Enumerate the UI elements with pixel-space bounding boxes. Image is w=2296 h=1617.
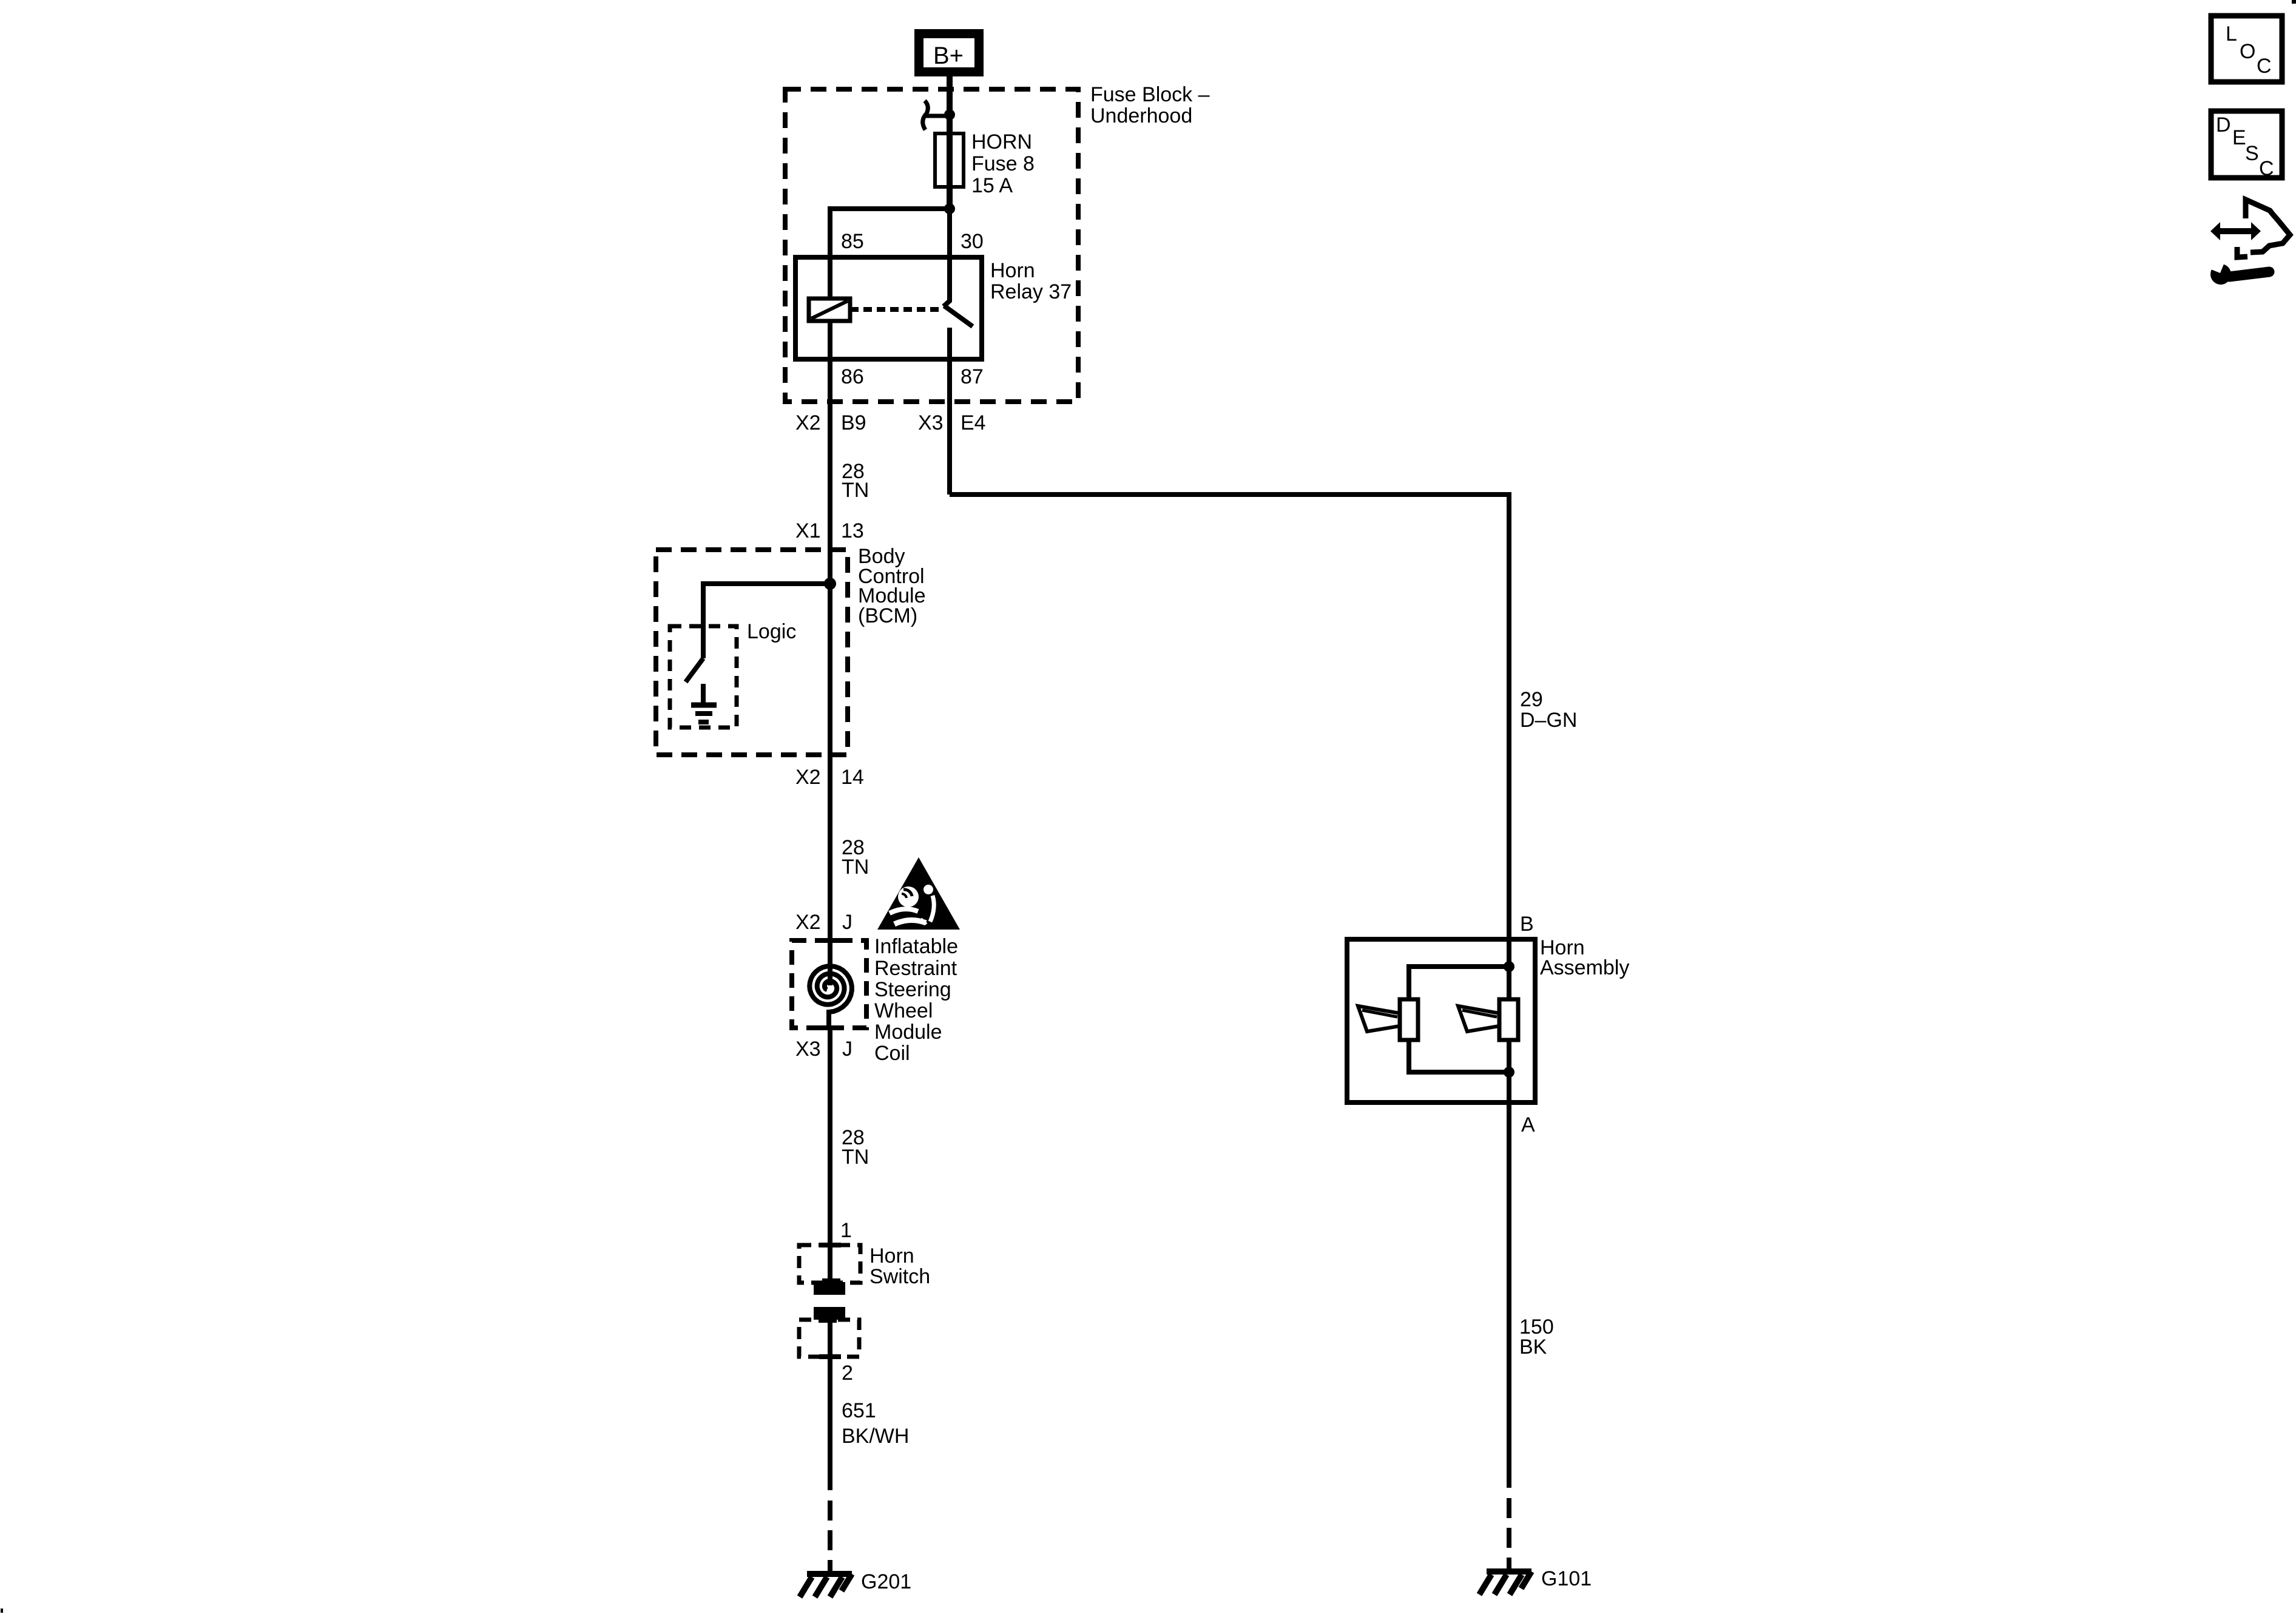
fuse puller symbol: [923, 101, 947, 130]
horn assembly box: [1347, 939, 1535, 1102]
svg-text:TN: TN: [842, 1146, 869, 1169]
relay actuation dashed link: [850, 307, 942, 312]
logic dashed box: [670, 626, 737, 727]
svg-text:15 A: 15 A: [971, 174, 1013, 197]
svg-text:C: C: [2257, 55, 2272, 78]
DESC icon box: [2211, 111, 2282, 180]
svg-text:B+: B+: [933, 42, 964, 69]
svg-text:Assembly: Assembly: [1540, 956, 1629, 979]
remove install icon: [2210, 200, 2290, 285]
svg-text:E: E: [2232, 126, 2246, 149]
svg-text:D–GN: D–GN: [1520, 709, 1577, 732]
svg-text:E4: E4: [961, 411, 986, 434]
coil spiral: [809, 940, 852, 1028]
page corner speck top right: [2292, 0, 2296, 4]
svg-text:86: 86: [841, 365, 864, 388]
wire BCM to coil: [828, 755, 832, 940]
svg-text:C: C: [2259, 157, 2274, 180]
svg-text:Switch: Switch: [869, 1265, 930, 1288]
wire 87 to horn assembly: [950, 495, 1509, 939]
wire horn switch to ground: [828, 1320, 832, 1490]
svg-text:J: J: [842, 911, 853, 934]
svg-text:1: 1: [840, 1219, 852, 1242]
wire 87 down: [947, 359, 952, 495]
LOC icon box: [2211, 16, 2282, 82]
svg-text:X1: X1: [795, 519, 821, 542]
junction node below B+: [944, 109, 955, 120]
junction node below fuse: [944, 203, 955, 214]
svg-text:TN: TN: [842, 856, 869, 879]
horn 2 element: [1458, 999, 1518, 1040]
svg-text:87: 87: [961, 365, 984, 388]
dashed wire to G201: [828, 1501, 832, 1573]
BCM internal wire: [828, 550, 832, 755]
fuse block underhood dashed box: [785, 89, 1078, 402]
svg-text:X3: X3: [918, 411, 944, 434]
svg-text:651: 651: [842, 1399, 876, 1422]
svg-text:14: 14: [841, 766, 864, 789]
page corner speck bottom left: [1, 1609, 3, 1613]
horn switch contacts: [814, 1278, 845, 1295]
horn 1 element: [1358, 999, 1418, 1040]
svg-text:Steering: Steering: [874, 978, 951, 1001]
svg-text:Restraint: Restraint: [874, 957, 957, 980]
svg-text:Underhood: Underhood: [1090, 104, 1192, 127]
ground G201: [800, 1574, 852, 1597]
ground G101: [1479, 1571, 1531, 1595]
wire pin 30: [947, 209, 952, 257]
svg-text:HORN: HORN: [971, 130, 1032, 154]
svg-text:Horn: Horn: [990, 259, 1035, 282]
svg-text:B9: B9: [841, 411, 866, 434]
svg-text:Inflatable: Inflatable: [874, 935, 958, 958]
svg-text:Fuse Block –: Fuse Block –: [1090, 83, 1210, 106]
wire horn assembly to ground: [1507, 1102, 1511, 1488]
wire 86 to BCM: [828, 359, 832, 550]
svg-text:X3: X3: [795, 1038, 821, 1061]
svg-text:J: J: [842, 1038, 853, 1061]
svg-text:Wheel: Wheel: [874, 999, 933, 1022]
relay coil wire 85-86: [828, 257, 832, 359]
svg-text:(BCM): (BCM): [858, 604, 917, 627]
wire to pin 85: [830, 209, 950, 257]
svg-text:S: S: [2245, 142, 2259, 165]
svg-text:G201: G201: [861, 1570, 911, 1593]
horn assembly internal wires: [1507, 939, 1511, 1102]
wire B+ feed: [947, 76, 953, 209]
svg-text:Relay 37: Relay 37: [990, 280, 1072, 303]
svg-text:85: 85: [841, 230, 864, 253]
svg-text:L: L: [2226, 22, 2237, 46]
horn switch connector bottom dashed box: [799, 1320, 859, 1357]
svg-text:13: 13: [841, 519, 864, 542]
fuse HORN Fuse 8 15A: [935, 133, 964, 187]
svg-text:X2: X2: [795, 911, 821, 934]
relay K horn relay 37 box: [795, 257, 982, 359]
svg-text:2: 2: [842, 1362, 853, 1385]
svg-text:BK: BK: [1519, 1335, 1547, 1359]
svg-text:Horn: Horn: [869, 1244, 914, 1268]
svg-text:G101: G101: [1541, 1567, 1592, 1590]
svg-text:Logic: Logic: [747, 620, 796, 643]
SIR warning triangle: [877, 857, 960, 930]
svg-text:A: A: [1521, 1113, 1535, 1136]
svg-text:Module: Module: [874, 1021, 942, 1044]
BCM switch blade: [686, 658, 703, 682]
svg-text:TN: TN: [842, 479, 869, 502]
wire coil to horn switch: [828, 1028, 832, 1283]
steering wheel coil connector dashed box: [792, 940, 866, 1028]
svg-text:O: O: [2240, 40, 2255, 63]
svg-text:X2: X2: [795, 411, 821, 434]
horn switch connector top dashed box: [799, 1245, 860, 1283]
svg-text:D: D: [2216, 113, 2231, 137]
svg-text:B: B: [1520, 913, 1534, 936]
wrench: [2229, 272, 2269, 277]
svg-text:BK/WH: BK/WH: [842, 1425, 909, 1448]
BCM dashed box: [656, 550, 848, 755]
svg-text:Fuse 8: Fuse 8: [971, 152, 1035, 175]
B+ terminal: [914, 29, 984, 76]
logic ground: [691, 684, 717, 722]
svg-text:30: 30: [961, 230, 984, 253]
relay coil: [809, 299, 850, 321]
relay switch: [944, 257, 973, 359]
svg-text:X2: X2: [795, 766, 821, 789]
svg-text:29: 29: [1520, 688, 1543, 711]
svg-text:Coil: Coil: [874, 1042, 910, 1065]
dashed wire to G101: [1507, 1498, 1511, 1570]
